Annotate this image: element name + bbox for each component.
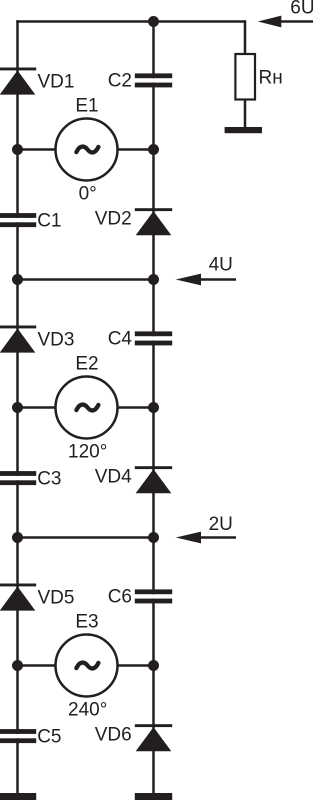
capacitor C1 [0, 213, 36, 227]
wire load branch drop to resistor [244, 20, 247, 55]
svg-text:Rн: Rн [259, 68, 283, 89]
ac source E3 [56, 635, 118, 697]
svg-text:E2: E2 [75, 353, 98, 374]
svg-text:C1: C1 [37, 211, 61, 232]
svg-text:C5: C5 [37, 727, 61, 748]
capacitor C5 [0, 729, 36, 743]
svg-text:C3: C3 [37, 469, 61, 490]
diode VD4 [135, 466, 172, 493]
node E3 middle rail junction [148, 660, 159, 671]
svg-text:2U: 2U [209, 514, 233, 535]
node E2 left rail junction [12, 402, 23, 413]
svg-text:4U: 4U [209, 255, 233, 276]
capacitor C4 [135, 331, 172, 345]
svg-text:VD5: VD5 [38, 588, 75, 609]
ac source E2 [56, 377, 118, 439]
diode VD3 [0, 326, 36, 353]
resistor RH load [235, 54, 255, 100]
arrow 6U output [258, 16, 313, 28]
capacitor C3 [0, 471, 36, 485]
svg-text:VD6: VD6 [95, 725, 132, 746]
diode VD2 [135, 208, 172, 235]
capacitor C2 [135, 73, 172, 87]
node E1 left rail junction [12, 144, 23, 155]
wire resistor to ground [244, 99, 247, 128]
wire middle rail [152, 20, 155, 793]
diode VD5 [0, 584, 36, 611]
svg-text:VD4: VD4 [95, 467, 132, 488]
ground terminal bottom of left rail [0, 793, 36, 800]
ground under load resistor [225, 127, 262, 133]
ac source E1 [56, 119, 118, 181]
svg-text:0°: 0° [79, 184, 97, 205]
capacitor C6 [135, 589, 172, 603]
svg-text:VD2: VD2 [95, 209, 132, 230]
node stage 2 output left junction [12, 532, 23, 543]
svg-text:C6: C6 [108, 587, 132, 608]
arrow 2U tap [176, 532, 236, 544]
wire stage 1 output bus [18, 278, 154, 281]
arrow 4U tap [176, 274, 236, 286]
node stage 1 output left junction [12, 274, 23, 285]
svg-text:6U: 6U [290, 0, 313, 18]
wire source E2 row connecting rails [18, 406, 154, 409]
svg-text:C2: C2 [108, 71, 132, 92]
wire stage 2 output bus [18, 536, 154, 539]
svg-text:E3: E3 [75, 611, 98, 632]
node stage 1 output middle junction [148, 274, 159, 285]
wire source E3 row connecting rails [18, 664, 154, 667]
svg-text:240°: 240° [68, 700, 107, 721]
svg-text:C4: C4 [108, 329, 133, 350]
node stage 2 output middle junction [148, 532, 159, 543]
svg-text:VD3: VD3 [38, 330, 75, 351]
wire top bus from left rail to load branch [16, 20, 245, 23]
node E3 left rail junction [12, 660, 23, 671]
svg-text:E1: E1 [75, 95, 98, 116]
ground terminal bottom of middle rail [135, 793, 172, 800]
wire left rail [16, 20, 19, 793]
node E2 middle rail junction [148, 402, 159, 413]
diode VD6 [135, 724, 172, 751]
wire source E1 row connecting rails [18, 148, 154, 151]
svg-text:120°: 120° [68, 442, 107, 463]
node E1 middle rail junction [148, 144, 159, 155]
diode VD1 [0, 68, 36, 95]
svg-text:VD1: VD1 [38, 72, 75, 93]
node junction at top of middle rail [148, 16, 159, 27]
